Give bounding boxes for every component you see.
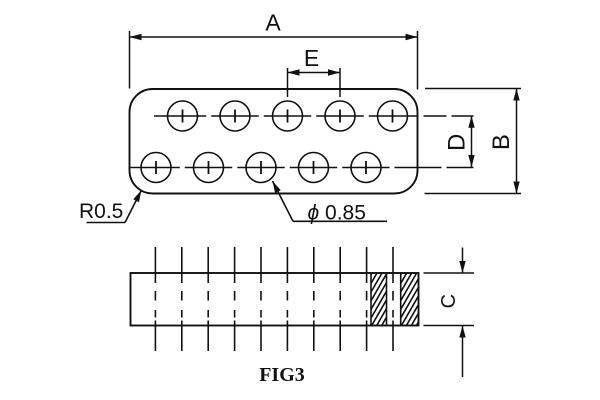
pin 1 [154, 247, 156, 351]
row 1 centerline [154, 115, 474, 117]
dimension B [425, 89, 522, 194]
hole top row #3 [273, 101, 303, 131]
leader phi 0.85 (hole diameter callout) [273, 181, 388, 225]
pin 10 [392, 247, 394, 351]
pin 2 [181, 247, 183, 351]
connector body (side view) [131, 273, 419, 326]
hole bottom row #1 [141, 153, 171, 183]
pin 8 [339, 247, 341, 351]
hatch band 1 [342, 273, 412, 326]
svg-text:C: C [438, 294, 460, 308]
dimension E [288, 45, 341, 97]
svg-text:ϕ 0.85: ϕ 0.85 [308, 202, 366, 225]
connector body outline (top view) [130, 89, 418, 194]
hole top row #2 [220, 101, 250, 131]
hole bottom row #4 [299, 153, 329, 183]
pin 9 [366, 247, 368, 351]
svg-text:E: E [304, 45, 319, 71]
pin 5 [260, 247, 262, 351]
row 2 centerline [131, 167, 474, 169]
leader R0.5 (corner radius callout) [79, 190, 142, 223]
svg-text:D: D [444, 134, 471, 151]
hole bottom row #2 [194, 153, 224, 183]
pin 7 [313, 247, 315, 351]
svg-text:A: A [265, 10, 281, 36]
dimension D [444, 116, 475, 167]
svg-text:FIG3: FIG3 [259, 364, 305, 386]
hole bottom row #3 [246, 153, 276, 183]
hole bottom row #5 [351, 153, 381, 183]
pin 4 [234, 247, 236, 351]
svg-text:R0.5: R0.5 [79, 200, 123, 223]
hole top row #5 [378, 101, 408, 131]
hole top row #1 [168, 101, 198, 131]
svg-text:B: B [488, 134, 515, 150]
hatch band 2 [371, 273, 446, 326]
hole top row #4 [325, 101, 355, 131]
dimension A [130, 10, 418, 90]
pin 3 [207, 247, 209, 351]
caption FIG3 [259, 364, 305, 386]
dimension C [424, 248, 475, 378]
pin 6 [286, 247, 288, 351]
hatched insert section boundaries [371, 273, 401, 326]
